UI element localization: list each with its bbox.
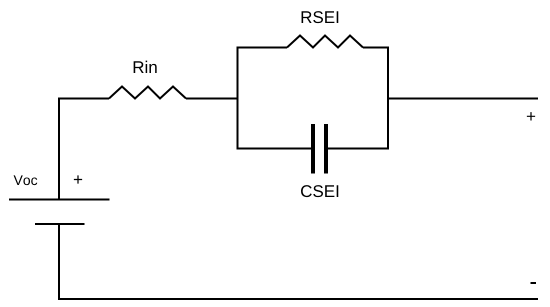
label RSEI — [302, 11, 339, 23]
resistor Rin — [109, 87, 186, 99]
wire: left vertical from main node down to battery — [58, 98, 60, 200]
resistor RSEI — [287, 36, 363, 48]
wire: from Rin to parallel box — [186, 98, 239, 100]
wire: box bottom edge right segment (from capacitor) — [328, 148, 388, 150]
node: box right edge (junction of RSEI/CSEI branches) — [387, 47, 389, 150]
capacitor CSEI left plate — [311, 124, 315, 174]
capacitor CSEI right plate — [324, 124, 328, 174]
wire: battery negative down — [58, 224, 60, 300]
wire: box top edge left segment — [238, 47, 288, 49]
wire: bottom return to - terminal — [58, 298, 538, 300]
battery Voc positive plate — [9, 199, 110, 201]
label Voc — [14, 175, 38, 185]
label + (output positive terminal) — [527, 112, 535, 120]
wire: box bottom edge left segment (to capacitor) — [238, 148, 312, 150]
wire: main horizontal left segment — [58, 98, 109, 100]
label CSEI — [301, 185, 338, 197]
wire: box top edge right segment — [363, 47, 388, 49]
label Rin — [134, 61, 157, 73]
label + (battery positive) — [74, 175, 82, 183]
battery Voc negative plate — [35, 223, 85, 225]
node: box left edge (junction of RSEI/CSEI branches) — [237, 47, 239, 150]
wire: output top to + terminal — [388, 98, 538, 100]
label - (output negative terminal) — [531, 282, 537, 284]
